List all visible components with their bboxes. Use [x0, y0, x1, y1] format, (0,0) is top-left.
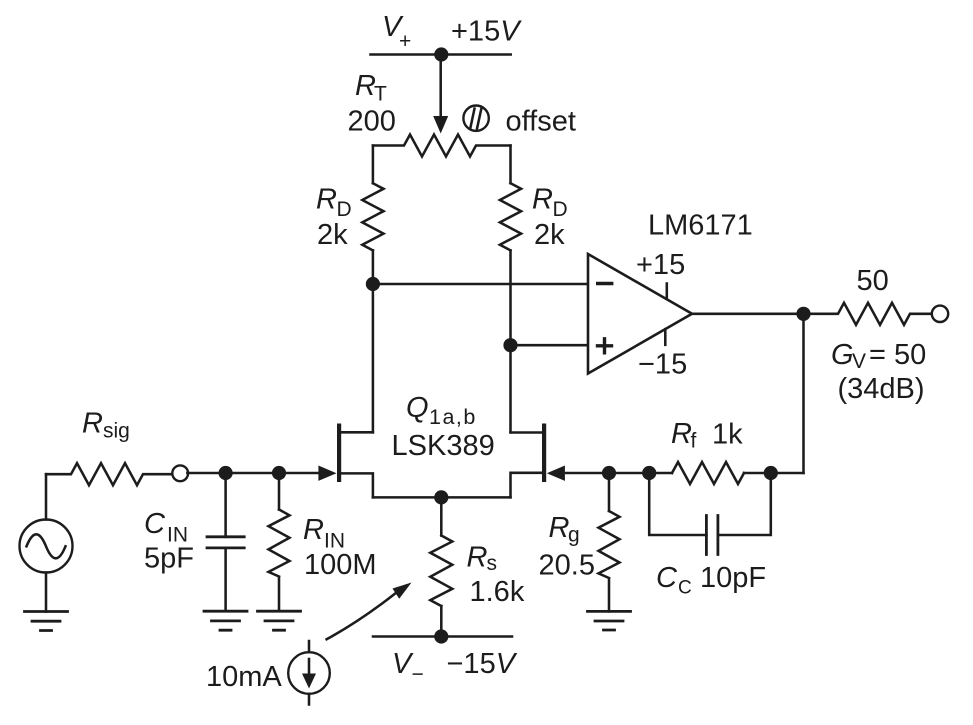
svg-text:+: +	[399, 30, 411, 53]
svg-text:R: R	[303, 514, 324, 546]
svg-text:2k: 2k	[317, 219, 348, 251]
svg-text:C: C	[144, 508, 166, 540]
svg-text:R: R	[532, 184, 553, 216]
svg-text:R: R	[355, 70, 376, 102]
svg-text:R: R	[671, 418, 692, 450]
svg-text:G: G	[831, 339, 854, 371]
svg-text:C: C	[656, 562, 678, 594]
svg-text:10pF: 10pF	[700, 562, 766, 594]
svg-text:R: R	[316, 184, 337, 216]
svg-text:Q: Q	[406, 392, 429, 424]
svg-text:1a,b: 1a,b	[429, 405, 477, 429]
svg-text:LM6171: LM6171	[648, 210, 753, 242]
svg-text:V: V	[852, 350, 866, 373]
svg-text:1.6k: 1.6k	[470, 576, 525, 608]
svg-text:T: T	[374, 83, 387, 106]
svg-text:10mA: 10mA	[206, 661, 282, 693]
svg-text:−15V: −15V	[447, 648, 518, 680]
svg-text:C: C	[678, 578, 692, 599]
svg-text:−15: −15	[638, 349, 687, 381]
svg-text:R: R	[549, 512, 570, 544]
svg-text:offset: offset	[506, 106, 576, 138]
svg-text:50: 50	[857, 265, 889, 297]
svg-text:sig: sig	[103, 420, 130, 443]
svg-text:200: 200	[348, 106, 396, 138]
svg-text:= 50: = 50	[869, 339, 926, 371]
svg-text:+15: +15	[636, 249, 685, 281]
svg-text:1k: 1k	[712, 419, 743, 451]
svg-text:20.5: 20.5	[539, 550, 595, 582]
svg-text:+15V: +15V	[451, 16, 522, 48]
svg-text:D: D	[337, 198, 352, 221]
svg-text:(34dB): (34dB)	[838, 373, 925, 405]
svg-text:5pF: 5pF	[144, 543, 194, 575]
svg-text:LSK389: LSK389	[392, 430, 495, 462]
svg-text:f: f	[691, 430, 697, 453]
svg-text:R: R	[467, 542, 488, 574]
svg-text:s: s	[487, 552, 498, 575]
svg-text:100M: 100M	[304, 549, 377, 581]
svg-text:D: D	[553, 198, 568, 221]
svg-text:R: R	[82, 408, 103, 440]
svg-text:2k: 2k	[534, 219, 565, 251]
svg-text:g: g	[568, 524, 580, 547]
svg-text:−: −	[412, 663, 424, 686]
